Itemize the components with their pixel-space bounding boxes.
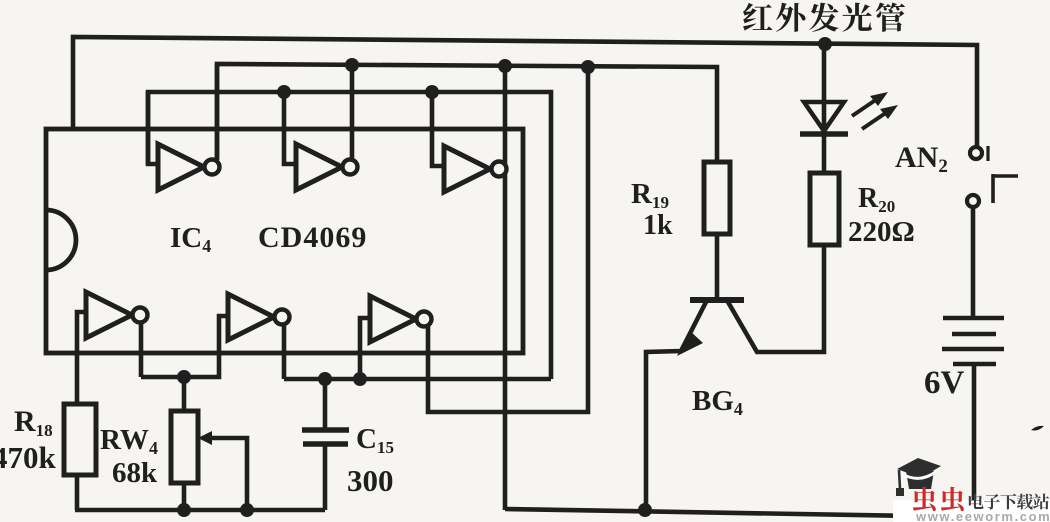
wire inverter IC4a input drop xyxy=(148,92,159,164)
switch AN2 contact bottom xyxy=(967,195,979,207)
node junction RW4 top tap xyxy=(177,370,191,384)
switch AN2 top contact tick xyxy=(986,146,989,161)
watermark graduation cap icon xyxy=(896,458,941,496)
node junction emitter on bottom rail xyxy=(638,503,652,517)
node junction RW4 bottom xyxy=(177,503,191,517)
IC notch (pin-1 index) xyxy=(46,210,76,270)
svg-text:RW4: RW4 xyxy=(100,424,158,458)
svg-text:AN2: AN2 xyxy=(895,141,948,177)
watermark 虫虫 logo text xyxy=(913,487,964,511)
resistor R18 xyxy=(64,403,96,510)
node junction T3 input on input bus xyxy=(425,85,439,99)
svg-text:300: 300 xyxy=(347,463,394,498)
wire bottom return rail xyxy=(505,509,916,516)
node junction C15 top tap xyxy=(318,372,332,386)
wire inverter IC4f input drop xyxy=(360,318,371,379)
transistor BG4 emitter (arrow) and wire to bottom rail xyxy=(646,302,706,512)
resistor R20 xyxy=(810,173,839,245)
node junction LED anode on top rail xyxy=(818,37,832,51)
inverter IC4b (top-middle) xyxy=(296,65,358,190)
inverter IC4a (top-left) xyxy=(158,64,220,190)
transistor BG4 base bar xyxy=(690,297,744,303)
inverter IC4c (top-right) xyxy=(444,146,507,192)
wire IC4f output loop (right-bottom) xyxy=(428,67,588,412)
wire IC4c output long drop to bottom rail xyxy=(503,66,508,510)
svg-text:470k: 470k xyxy=(0,440,57,475)
switch AN2 actuator bar xyxy=(993,174,1018,203)
wire inverter IC4c input drop xyxy=(432,92,445,166)
potentiometer RW4 wiper arm xyxy=(198,431,247,510)
potentiometer RW4 xyxy=(171,377,198,510)
svg-text:www.eeworm.com: www.eeworm.com xyxy=(915,509,1050,522)
svg-text:IC4: IC4 xyxy=(170,222,211,256)
battery 6V xyxy=(942,318,1004,500)
node junction T3 output on bus xyxy=(498,59,512,73)
node junction T2 input on input bus xyxy=(277,85,291,99)
svg-text:C15: C15 xyxy=(356,423,394,457)
wire bottom-left rail (R18/RW4/C15) xyxy=(75,508,325,513)
node junction B3 output on bus xyxy=(581,60,595,74)
LED emission arrows xyxy=(852,92,898,129)
IC IC4 CD4069 body outline xyxy=(46,129,523,353)
switch AN2 contact top xyxy=(970,147,982,159)
wire inverter IC4b input drop xyxy=(284,92,297,164)
stray scan mark right edge xyxy=(1031,426,1044,431)
label 红外发光管 (infrared LED) xyxy=(743,2,905,31)
svg-text:BG4: BG4 xyxy=(692,385,743,419)
svg-text:68k: 68k xyxy=(112,457,158,489)
inverter IC4f (bottom-right) xyxy=(370,296,432,342)
node junction T2 output on bus xyxy=(345,58,359,72)
svg-text:6V: 6V xyxy=(924,365,965,401)
resistor R19 xyxy=(704,162,730,299)
transistor BG4 collector wire to R20 xyxy=(728,245,824,352)
node junction RW4 wiper return xyxy=(240,503,254,517)
inverter IC4d (bottom-left) xyxy=(86,292,148,377)
node junction IC4f input tap xyxy=(353,372,367,386)
wire inverter-input bus / feedback from timing network xyxy=(148,92,551,379)
watermark white backing strip xyxy=(893,500,1050,522)
wire switch to battery xyxy=(971,207,976,319)
capacitor C15 xyxy=(302,379,349,510)
LED infrared emitter diode xyxy=(800,44,848,173)
inverter IC4e (bottom-middle) xyxy=(228,294,290,379)
wire positive supply top rail with switch drop xyxy=(73,37,977,146)
wire inverter IC4d input stub to R18 xyxy=(77,312,88,403)
svg-text:CD4069: CD4069 xyxy=(258,221,367,254)
svg-text:1k: 1k xyxy=(643,210,673,241)
svg-text:R18: R18 xyxy=(14,405,53,440)
wire inverter-output bus (to R19) xyxy=(217,64,717,172)
svg-text:220Ω: 220Ω xyxy=(848,216,915,248)
svg-text:R20: R20 xyxy=(858,183,895,216)
svg-text:R19: R19 xyxy=(631,178,669,212)
wire IC4d output to IC4e input (RW4 tap) xyxy=(141,316,229,377)
wire IC4e output run (C15 tap, IC4f input) xyxy=(284,377,551,382)
watermark 电子下载站 text xyxy=(969,494,1049,510)
